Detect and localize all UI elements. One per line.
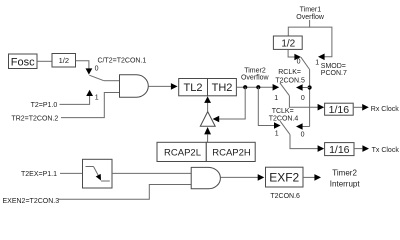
falling edge arrowhead: [96, 174, 101, 181]
wire SMOD pole to RCLK contact 0: [302, 87, 310, 89]
svg-text:Timer2: Timer2: [244, 67, 266, 74]
switch RCLK lever: [280, 83, 290, 96]
wire TCLK pole to 1/16 Tx: [290, 135, 319, 149]
svg-text:Overflow: Overflow: [296, 14, 325, 21]
svg-text:RCAP2H: RCAP2H: [212, 147, 251, 158]
svg-text:1: 1: [95, 95, 99, 102]
svg-text:Overflow: Overflow: [241, 75, 270, 82]
arrow into buffer right side: [213, 116, 220, 123]
falling edge symbol low level: [101, 180, 110, 182]
wire edge detector to AND gate G2: [112, 172, 191, 174]
svg-text:1: 1: [315, 59, 319, 66]
switch SMOD lever: [301, 57, 310, 69]
arrow into TL2: [171, 83, 178, 90]
svg-text:RCAP2L: RCAP2L: [164, 147, 201, 158]
node junction dot C on SMOD pole: [308, 85, 312, 89]
svg-text:C/T2=T2CON.1: C/T2=T2CON.1: [98, 57, 147, 64]
and-gate G2: [191, 167, 220, 188]
wire 1/16 Tx output: [354, 148, 362, 150]
arrow contact 1 of RCLK switch: [273, 84, 280, 91]
switch C/T2 lever: [89, 75, 104, 81]
wire G2 output to EXF2: [220, 176, 258, 178]
svg-text:T2=P1.0: T2=P1.0: [31, 102, 58, 109]
wire RCAP2 top to buffer: [207, 134, 209, 142]
svg-text:0: 0: [301, 132, 305, 139]
svg-text:EXF2: EXF2: [269, 170, 299, 184]
arrow contact 1 of C/T2 switch: [86, 90, 93, 96]
svg-text:T2EX=P1.1: T2EX=P1.1: [21, 171, 57, 178]
divider 1/16 Tx: [325, 143, 354, 156]
svg-text:EXEN2=T2CON.3: EXEN2=T2CON.3: [3, 198, 60, 205]
wire 1/2 to C/T2 switch contact 0: [76, 61, 89, 70]
wire Timer2 overflow main line: [236, 86, 274, 88]
buffer triangle (reload): [200, 112, 215, 127]
register RCAP2L: [157, 142, 206, 161]
arrow up from RCAP into buffer: [204, 127, 211, 134]
divider 1/2 (timer1 prescaler): [273, 36, 302, 49]
svg-text:0: 0: [95, 66, 99, 73]
svg-text:T2CON.6: T2CON.6: [270, 193, 300, 200]
node junction dot A: [243, 85, 247, 89]
edge detector box: [83, 159, 113, 188]
register TH2: [208, 79, 237, 96]
register RCAP2H: [206, 142, 255, 161]
arrow Rx clock: [362, 104, 369, 111]
wire T2EX to edge detector: [60, 172, 83, 174]
svg-text:SMOD=: SMOD=: [321, 63, 346, 70]
wire 1/16 Rx output: [353, 106, 362, 108]
divider 1/2 (oscillator prescaler): [52, 54, 76, 68]
svg-text:1: 1: [275, 131, 279, 138]
falling edge symbol slope: [94, 167, 101, 180]
svg-text:TCLK=: TCLK=: [272, 108, 294, 115]
wire Fosc to 1/2 divider: [37, 60, 52, 62]
svg-text:TH2: TH2: [212, 82, 233, 94]
svg-text:1/2: 1/2: [59, 56, 69, 65]
arrow contact 0 of C/T2 switch: [86, 68, 93, 74]
arrow into 1/16 Rx: [318, 104, 325, 111]
and-gate G1: [120, 75, 149, 97]
divider 1/16 Rx: [325, 103, 354, 116]
svg-text:Rx Clock: Rx Clock: [371, 106, 400, 113]
wire SMOD pole to TCLK contact 0: [302, 126, 310, 128]
svg-text:0: 0: [297, 59, 301, 66]
falling edge symbol high level: [86, 166, 94, 168]
svg-text:1/16: 1/16: [329, 144, 350, 156]
svg-text:1/2: 1/2: [281, 38, 295, 49]
arrow contact 0 of SMOD switch: [294, 54, 301, 61]
wire G1 output to TL2: [149, 85, 172, 87]
svg-text:Fosc: Fosc: [11, 56, 35, 68]
wire SMOD pole down: [309, 70, 311, 127]
oscillator Fosc: [9, 54, 38, 69]
arrow Tx clock: [362, 145, 369, 152]
svg-text:TL2: TL2: [184, 82, 203, 94]
wire Timer1 direct branch to SMOD contact 1: [310, 27, 332, 57]
svg-text:TR2=T2CON.2: TR2=T2CON.2: [11, 115, 58, 122]
wire reload feedback from node A to buffer: [219, 87, 246, 119]
flag EXF2: [266, 167, 304, 187]
wire switch pole to AND gate G1: [104, 80, 120, 82]
svg-text:1/16: 1/16: [329, 104, 350, 116]
wire T2 pin to contact 1: [60, 96, 90, 104]
svg-text:Interrupt: Interrupt: [330, 180, 361, 189]
arrow contact 0 of RCLK switch: [296, 84, 303, 91]
switch TCLK lever: [280, 121, 290, 134]
wire TR2 to AND gate G1 lower input: [61, 93, 120, 118]
wire EXEN2 to AND gate G2 lower input: [58, 185, 191, 200]
arrow contact 1 of SMOD switch: [318, 54, 325, 61]
wire Timer1 overflow split: [288, 20, 309, 36]
svg-text:Timer1: Timer1: [300, 7, 322, 14]
svg-text:Tx Clock: Tx Clock: [372, 147, 400, 154]
wire from node B to TCLK switch contact 1: [258, 87, 275, 125]
arrow contact 0 of TCLK switch: [296, 123, 303, 130]
arrow into 1/16 Tx: [318, 145, 325, 152]
svg-text:0: 0: [301, 95, 305, 102]
wire buffer to TL2/TH2 bottom: [207, 103, 209, 112]
svg-text:PCON.7: PCON.7: [321, 70, 347, 77]
node junction dot B: [256, 85, 260, 89]
arrow contact 1 of TCLK switch: [274, 122, 281, 129]
svg-text:1: 1: [274, 95, 278, 102]
arrow up into TL2/TH2: [204, 96, 211, 103]
wire RCLK pole to 1/16 Rx: [289, 96, 318, 108]
register TL2: [179, 79, 208, 96]
svg-text:RCLK=: RCLK=: [278, 69, 301, 76]
arrow into EXF2: [258, 174, 265, 181]
arrow Timer2 interrupt: [314, 174, 321, 181]
svg-text:T2CON.4: T2CON.4: [269, 116, 299, 123]
wire EXF2 output: [303, 176, 315, 178]
wire 1/2 to SMOD contact 0: [288, 49, 295, 57]
svg-text:Timer2: Timer2: [332, 169, 357, 178]
